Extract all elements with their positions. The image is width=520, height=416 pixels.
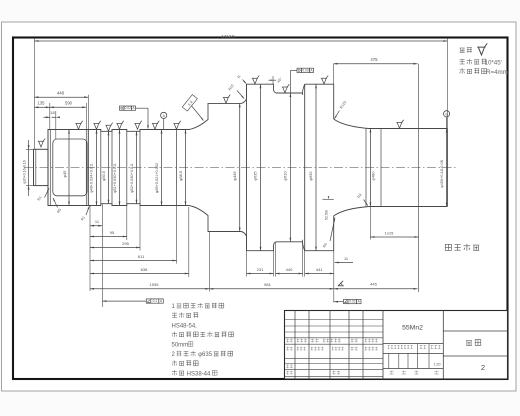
- fillet R leader keyway: [53, 198, 58, 208]
- fillet R leader right keyway: [364, 200, 368, 206]
- svg-text:95: 95: [110, 230, 115, 235]
- svg-text:52.5m: 52.5m: [324, 210, 328, 220]
- taper flag leader above medium block: [191, 105, 204, 121]
- fillet R125 leader taper: [335, 111, 340, 119]
- surface finish symbol: [93, 121, 100, 130]
- right end face: [446, 129, 448, 207]
- dim phi58.5: [185, 130, 187, 206]
- dim 95: [90, 236, 127, 238]
- svg-text:1412.5: 1412.5: [221, 34, 235, 39]
- svg-text:441: 441: [316, 267, 323, 272]
- dim phi635 disc2: [315, 84, 317, 251]
- dim phi610 groove + runout leader: [289, 71, 291, 242]
- section2 right chamfer line: [85, 130, 87, 206]
- surface finish symbol: [396, 120, 403, 129]
- datum A circle on phi65 seat: [161, 112, 167, 118]
- dim 445: [334, 288, 418, 290]
- svg-text:φ65+0.021+0.002: φ65+0.021+0.002: [155, 163, 159, 193]
- dim phi48: [96, 130, 98, 206]
- svg-text:55Mn2: 55Mn2: [402, 325, 423, 332]
- dim 611: [90, 260, 177, 262]
- dim 295: [90, 247, 140, 249]
- center groove between discs: [277, 92, 303, 94]
- svg-text:0.03: 0.03: [302, 68, 308, 72]
- surface finish symbol: [152, 121, 159, 130]
- surface finish symbol: [134, 121, 141, 130]
- surface finish symbol: [252, 75, 259, 84]
- note: chamfer 10x45: [460, 59, 465, 64]
- tolerance frame bottom-left: [146, 299, 151, 303]
- dim phi65: [161, 130, 163, 206]
- small stepped journals bottom profile: [88, 204, 246, 251]
- svg-text:R=4mm: R=4mm: [486, 69, 508, 76]
- dim 1x15 right journal: [370, 236, 418, 238]
- svg-text:590: 590: [65, 101, 73, 106]
- dim phi45: [68, 130, 70, 206]
- shaft centerline: [24, 166, 456, 168]
- phi20 ext tick bottom: [26, 185, 34, 187]
- svg-text:0.03: 0.03: [349, 300, 355, 304]
- dim phi445: [239, 103, 241, 231]
- svg-text:231: 231: [257, 267, 264, 272]
- right journal phi450: [369, 128, 447, 130]
- svg-text:0.02: 0.02: [125, 106, 131, 110]
- svg-text:φ450+0.18-0.08: φ450+0.18-0.08: [439, 160, 444, 188]
- dim 475: [334, 63, 418, 65]
- step line: [111, 130, 113, 206]
- dim phi480: [369, 129, 371, 207]
- fillet R15 leader: [237, 91, 244, 99]
- svg-text:φ48+0.034+0.011: φ48+0.034+0.011: [90, 163, 94, 193]
- svg-text:φ20+0.16-0.16: φ20+0.16-0.16: [23, 160, 27, 184]
- surface finish symbol: [75, 121, 82, 130]
- svg-text:2: 2: [481, 363, 485, 372]
- svg-text:φ635: φ635: [198, 352, 213, 358]
- dim phi20 stub (outside arrows): [28, 140, 30, 196]
- svg-text:11: 11: [344, 256, 348, 261]
- fillet R leader stub: [45, 189, 50, 198]
- dim 11 right: [335, 262, 353, 264]
- title block table: [285, 311, 508, 380]
- dim 135: [34, 106, 49, 108]
- step line: [126, 131, 128, 203]
- long extension line x=418.5: [418, 64, 420, 292]
- inner thick border frame: [13, 38, 508, 380]
- phi20 ext tick top: [26, 148, 34, 150]
- svg-text:295: 295: [122, 241, 129, 246]
- surface finish symbol: [321, 75, 328, 84]
- surface finish symbol: [173, 121, 180, 130]
- svg-text:HS38-44: HS38-44: [187, 371, 211, 377]
- surface finish symbol: [105, 123, 112, 132]
- svg-text:1x15: 1x15: [385, 231, 394, 236]
- svg-text:φ445: φ445: [232, 171, 237, 181]
- svg-text:440: 440: [286, 267, 293, 272]
- tech requirements label: [445, 244, 451, 250]
- step line: [139, 130, 141, 206]
- svg-text:1:20: 1:20: [434, 362, 441, 366]
- surface finish symbol: [282, 84, 289, 93]
- tolerance frame 0.03/A: [297, 68, 302, 72]
- section2 left chamfer line: [49, 130, 51, 206]
- step line x=176.5: [176, 130, 178, 206]
- roll disc1 phi635: [247, 84, 277, 251]
- svg-text:φ50.5: φ50.5: [102, 171, 106, 181]
- dim 1535: [90, 288, 209, 290]
- extension lines: [33, 38, 35, 149]
- dim phi52: [136, 131, 138, 203]
- svg-text:φ635: φ635: [308, 171, 313, 181]
- small stepped journals top profile: [88, 84, 246, 131]
- journal line x=381: [380, 129, 382, 207]
- keyway flat on section2: [53, 139, 87, 196]
- fillet R leader disc1: [243, 80, 247, 84]
- dim 231: [247, 273, 274, 275]
- roughness symbol in note: [477, 43, 487, 55]
- svg-text:φ58.5: φ58.5: [179, 171, 183, 181]
- dim 11: [90, 225, 102, 227]
- svg-text:0.1: 0.1: [153, 299, 158, 303]
- dim 440: [276, 273, 303, 275]
- svg-text:18: 18: [50, 110, 55, 115]
- svg-text:φ610: φ610: [283, 171, 288, 181]
- svg-text:φ635: φ635: [253, 171, 258, 181]
- step line: [100, 131, 102, 203]
- dim phi51: [119, 130, 121, 206]
- chamfer 45 deg: [269, 79, 277, 81]
- svg-text:638: 638: [141, 267, 148, 272]
- taper symbol: [338, 281, 344, 286]
- svg-text:50mm: 50mm: [172, 343, 189, 349]
- taper end line: [365, 129, 367, 207]
- note: qiyu + roughness: [460, 48, 465, 52]
- shaft left stub section phi20: [34, 149, 49, 185]
- datum B circle at right journal: [444, 111, 450, 117]
- dim phi450: [446, 129, 448, 207]
- svg-text:475: 475: [370, 57, 378, 62]
- svg-text:HS48-54,: HS48-54,: [172, 323, 198, 329]
- fillet R leader bottom taper: [330, 218, 335, 242]
- dim 52.5 tick: [323, 198, 334, 200]
- dim 590: [50, 106, 87, 108]
- dim 441: [305, 273, 334, 275]
- dim 981: [209, 288, 333, 290]
- dim 18 (outside arrows): [44, 116, 50, 118]
- fillet R leader step: [86, 206, 89, 215]
- dim phi635 disc1: [260, 84, 262, 251]
- svg-text:135: 135: [38, 101, 46, 106]
- svg-text:448: 448: [57, 91, 65, 96]
- tolerance frame 0.02/A: [120, 106, 125, 110]
- svg-text:981: 981: [264, 282, 271, 287]
- stub chamfer line: [35, 149, 37, 185]
- tolerance frame bottom-right: [344, 299, 349, 303]
- dim phi50.5: [108, 131, 110, 203]
- svg-text:φ480: φ480: [371, 171, 376, 181]
- svg-text:φ45: φ45: [62, 170, 67, 178]
- svg-text:φ51+0.030+0.011: φ51+0.030+0.011: [113, 163, 117, 193]
- note: fillet R=4mm: [459, 68, 465, 74]
- svg-text:φ52+0.030+0.011: φ52+0.030+0.011: [130, 163, 134, 193]
- surface finish symbol: [223, 95, 230, 104]
- dim 448: [34, 96, 88, 98]
- svg-text:1535: 1535: [150, 282, 160, 287]
- surface finish symbol: [38, 138, 45, 147]
- svg-text:445: 445: [370, 282, 377, 287]
- surface finish symbol: [116, 121, 123, 130]
- svg-text:611: 611: [138, 254, 145, 259]
- dim 1412.5 overall length: [34, 40, 447, 42]
- taper transition curves: [334, 119, 369, 129]
- shaft section2 phi45: [48, 130, 88, 206]
- dim 638: [90, 273, 189, 275]
- svg-text:10*45': 10*45': [485, 59, 502, 66]
- roll disc2 phi635: [305, 84, 334, 251]
